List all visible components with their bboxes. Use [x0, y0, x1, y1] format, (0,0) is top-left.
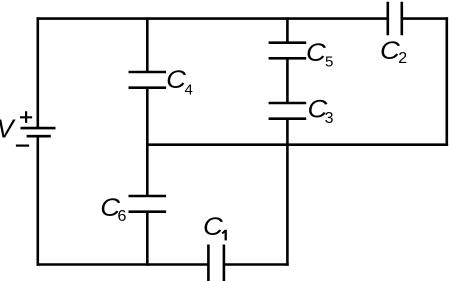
capacitor C1	[208, 245, 224, 281]
svg-text:3: 3	[325, 110, 334, 127]
svg-text:5: 5	[325, 54, 333, 71]
svg-text:C: C	[203, 212, 224, 241]
svg-text:4: 4	[185, 82, 193, 99]
label C1 subscript 1	[222, 230, 226, 233]
wire branch C3 lower	[286, 119, 289, 266]
wire bottom (left segment to C1 left plate)	[37, 263, 209, 266]
battery plus sign	[20, 111, 32, 123]
capacitor C2	[388, 2, 402, 36]
wire branch C6 lower	[146, 212, 149, 266]
capacitor C3	[269, 103, 307, 119]
battery minus sign	[16, 145, 29, 147]
battery V plates	[21, 128, 56, 136]
wire top (right segment, C2 right plate to top-right corner)	[402, 17, 448, 20]
wire branch C4-C6 middle	[146, 88, 149, 196]
svg-text:C: C	[306, 38, 327, 67]
capacitor C6	[129, 196, 167, 212]
wire left lower (battery - terminal down to bottom-left corner)	[36, 136, 39, 266]
svg-text:V: V	[0, 115, 16, 143]
wire bottom (right segment, C1 right plate to branch junction)	[224, 263, 289, 266]
wire top (left segment, node A to C2 left plate)	[37, 17, 388, 20]
wire branch C4 upper	[146, 17, 149, 72]
wire left upper (top-left corner down to battery + terminal)	[36, 17, 39, 128]
wire branch C5 upper	[286, 17, 289, 42]
capacitor C4	[129, 72, 167, 88]
wire middle horizontal (node B row)	[146, 143, 448, 146]
svg-text:6: 6	[118, 208, 127, 225]
svg-text:2: 2	[398, 50, 407, 67]
wire branch C5-C3 middle	[286, 58, 289, 103]
capacitor C5	[269, 43, 307, 59]
wire right (top-right corner down to middle wire)	[445, 17, 448, 146]
